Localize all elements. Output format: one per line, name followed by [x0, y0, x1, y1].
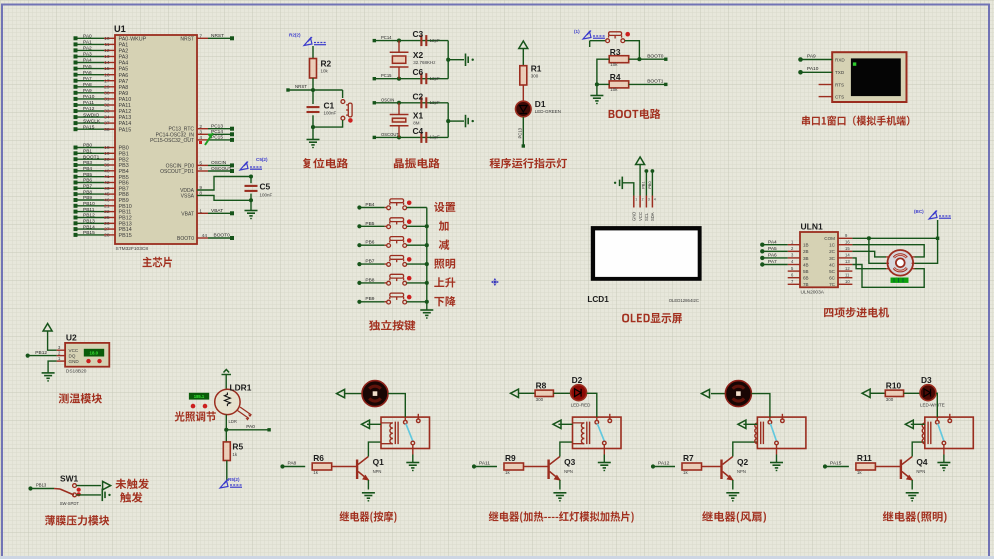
svg-text:LDR1: LDR1 [230, 383, 252, 393]
svg-text:300: 300 [886, 397, 894, 402]
relay NO contact [603, 441, 607, 454]
svg-text:COM: COM [824, 236, 835, 241]
svg-text:OSCOUT_PD1: OSCOUT_PD1 [160, 169, 194, 175]
wire 1C to motor right-top [852, 245, 924, 257]
LED D2 [571, 385, 587, 401]
U1 pin 12 PA2 wire [77, 49, 105, 51]
svg-text:PA9: PA9 [807, 53, 816, 59]
svg-text:PA7: PA7 [119, 79, 129, 85]
fan motor body [725, 381, 751, 407]
svg-text:VBAT: VBAT [211, 208, 223, 214]
U2 red dots [86, 359, 90, 363]
svg-text:19: 19 [104, 151, 110, 157]
relay coil [755, 422, 764, 445]
svg-text:10: 10 [845, 279, 850, 284]
svg-text:BOOT0: BOOT0 [214, 233, 231, 239]
svg-text:PB10: PB10 [83, 201, 95, 207]
svg-text:NPN: NPN [737, 469, 746, 474]
svg-text:7: 7 [199, 34, 202, 40]
svg-text:13: 13 [845, 259, 850, 264]
OLED display body LCD1 [591, 226, 702, 281]
wire C1 bottom [312, 115, 314, 127]
node rail junction [446, 58, 450, 62]
svg-text:R7: R7 [683, 453, 694, 463]
wire rail to ground [448, 120, 464, 122]
stepper motor M1 body [888, 250, 914, 276]
wire motor to relay common [388, 394, 405, 418]
LDR green display [189, 393, 209, 400]
svg-text:(BC): (BC) [914, 209, 924, 214]
node LDR/R5/PA0 [224, 428, 228, 432]
relay box [925, 417, 974, 448]
svg-text:27: 27 [104, 227, 110, 233]
ground relay contact [598, 455, 611, 471]
svg-text:100nF: 100nF [324, 111, 337, 116]
svg-text:ULN1: ULN1 [801, 222, 823, 232]
wire 4C to motor right-bottom [852, 265, 924, 288]
wire OLED GND pin [623, 183, 634, 196]
ground sideways crystal [466, 115, 474, 128]
wire Q4 emitter to ground [911, 480, 913, 490]
svg-text:33: 33 [104, 109, 110, 115]
wire R5 to probe [226, 461, 228, 482]
ULN1 pin 1 1B [788, 244, 800, 246]
U1 pin 34 PA13 wire [77, 116, 105, 118]
relay blade [770, 424, 776, 442]
wire R4 left [597, 83, 609, 85]
resistor R6 [312, 463, 332, 470]
svg-text:15: 15 [104, 66, 110, 72]
svg-text:R4: R4 [610, 72, 621, 82]
node BOOT0 junction [637, 57, 641, 61]
ground U2 [42, 373, 55, 381]
U2 body DS18B20 [65, 343, 109, 367]
U1 pin 17 PA7 wire [77, 80, 105, 82]
svg-text:3C: 3C [829, 256, 836, 261]
wire R1 to D1 [522, 85, 524, 101]
U1 pin 43 PB7 wire [77, 187, 105, 189]
svg-text:PB8: PB8 [83, 189, 92, 195]
resistor R4 [609, 81, 629, 88]
svg-text:OSCIN: OSCIN [211, 160, 227, 166]
svg-text:PB13: PB13 [83, 219, 95, 225]
svg-text:41: 41 [104, 174, 110, 180]
wire R4 to BOOT1 pad [629, 83, 665, 85]
svg-text:C2: C2 [413, 91, 424, 101]
svg-text:PB9: PB9 [83, 195, 92, 201]
svg-text:PA15: PA15 [119, 127, 132, 133]
svg-text:PA7: PA7 [83, 76, 92, 82]
caption 串口1窗口（模拟手机端） [802, 116, 910, 126]
U1 pin 3 PC14-OSC32_IN wire / net PC14 [197, 133, 208, 135]
wire Q1 emitter to ground [367, 480, 369, 490]
svg-text:14: 14 [104, 60, 110, 66]
svg-text:PA14: PA14 [119, 121, 132, 127]
relay common contact [768, 417, 772, 424]
U1 pin 26 PB13 wire [77, 222, 105, 224]
svg-text:185.1: 185.1 [194, 394, 205, 399]
wire net PA7 to ULN input [763, 264, 788, 266]
wire R3 left to R4 left rail [597, 59, 609, 95]
stepper motor green meter [891, 278, 909, 283]
svg-text:LCD1: LCD1 [587, 295, 609, 304]
svg-text:PB15: PB15 [83, 230, 95, 236]
svg-text:C5: C5 [260, 182, 271, 192]
U1 pin 18 PB0 wire [77, 147, 105, 149]
pushbutton PB5 pin [385, 225, 387, 227]
BOOT pushbutton [606, 32, 625, 43]
wire 2C to motor left-top [852, 251, 886, 257]
wire button to BOOT0 node [625, 41, 640, 60]
svg-text:PA1: PA1 [83, 40, 92, 46]
caption 测温模块 [59, 393, 102, 403]
svg-text:C6: C6 [413, 67, 424, 77]
wire R8 to D2 [553, 392, 570, 394]
svg-text:46: 46 [104, 198, 110, 204]
svg-text:PB12: PB12 [35, 350, 47, 356]
pushbutton reset state dot [348, 118, 353, 123]
relay NC contact stub [608, 414, 612, 423]
power bar LDR top [222, 370, 232, 375]
run arrow on PC14 wire [205, 133, 213, 145]
svg-text:28: 28 [104, 233, 110, 239]
svg-text:ULN2003A: ULN2003A [801, 290, 825, 296]
ground below C5 [245, 200, 258, 218]
svg-text:18: 18 [104, 145, 110, 151]
U2 pin stubs [57, 349, 66, 351]
U1 pin 29 PA8 wire [77, 86, 105, 88]
ground relay contact [406, 455, 419, 471]
svg-text:PB13: PB13 [36, 482, 47, 487]
svg-text:100nF: 100nF [260, 193, 273, 198]
crystal X1 pins [398, 103, 400, 138]
svg-text:VCC: VCC [638, 212, 643, 221]
power arrow relay coil [743, 423, 757, 425]
caption 上升 [434, 277, 455, 287]
svg-text:13: 13 [104, 54, 110, 60]
serial window cursor [853, 62, 856, 65]
ground emitter Q1 [362, 493, 375, 501]
node NRST junction [311, 88, 315, 92]
svg-text:BOOT1: BOOT1 [647, 79, 664, 85]
wire D3 to relay common [936, 393, 937, 417]
svg-text:OSCOUT: OSCOUT [211, 166, 232, 172]
node bus junction [425, 281, 429, 285]
svg-text:3: 3 [199, 130, 202, 136]
capacitor C5 [245, 186, 258, 191]
ground sideways crystal [466, 54, 474, 67]
svg-text:R6: R6 [313, 453, 324, 463]
svg-text:PB0: PB0 [83, 143, 92, 149]
wire OLED VCC pin [639, 165, 641, 196]
node VSSA/C5 junction [249, 198, 253, 202]
U1 pin 2 PC13_RTC wire / net PC13 [197, 128, 208, 130]
svg-text:10: 10 [104, 36, 110, 42]
serial pin CTS stub [819, 96, 833, 98]
U1 pin 19 PB1 wire [77, 152, 105, 154]
wire PB4 to bus [407, 207, 427, 209]
serial window screen [851, 58, 901, 96]
wire throw1 to arrow [76, 485, 101, 487]
svg-text:1B: 1B [803, 243, 809, 248]
svg-text:PA8: PA8 [83, 82, 92, 88]
motor massage inner [369, 386, 380, 401]
svg-text:PB9: PB9 [365, 296, 374, 302]
svg-text:PA10: PA10 [807, 66, 819, 72]
mcu U1 body STM32F103C8 [115, 35, 197, 244]
caption 光照调节 [175, 411, 216, 421]
svg-text:29: 29 [104, 84, 110, 90]
svg-text:X1: X1 [413, 111, 424, 121]
svg-text:PA2: PA2 [83, 46, 92, 52]
svg-text:VBAT: VBAT [181, 211, 194, 217]
svg-text:PB0: PB0 [648, 181, 652, 188]
svg-text:Q2: Q2 [737, 457, 749, 467]
power arrow indicator [519, 41, 528, 49]
svg-text:PA2: PA2 [119, 49, 129, 55]
svg-text:1k: 1k [313, 470, 319, 475]
svg-text:3B: 3B [803, 256, 809, 261]
svg-text:SDA: SDA [650, 212, 655, 221]
wire load arrow [711, 393, 725, 395]
svg-text:PA12: PA12 [83, 106, 95, 112]
caption 独立按键 [369, 320, 415, 330]
svg-text:2B: 2B [803, 249, 809, 254]
transistor Q3 NPN [549, 457, 560, 481]
voltage probe R2(2) [304, 37, 326, 46]
svg-text:D1: D1 [535, 99, 546, 109]
svg-text:2: 2 [199, 124, 202, 130]
relay box [573, 417, 622, 448]
wire R3 to BOOT0 pad [629, 58, 665, 60]
wire node to R5 [225, 430, 227, 442]
svg-text:2: 2 [642, 198, 644, 202]
svg-text:D3: D3 [921, 375, 932, 385]
wire R7 to base [702, 466, 722, 468]
wire COM right to motor right [915, 238, 938, 263]
svg-text:X2: X2 [413, 50, 424, 60]
U1 pin 40 PB4 wire [77, 170, 105, 172]
U1 pin 42 PB6 wire [77, 182, 105, 184]
svg-text:26: 26 [104, 221, 110, 227]
svg-text:1k: 1k [683, 470, 689, 475]
U1 pin 11 PA1 wire [77, 43, 105, 45]
svg-text:16: 16 [845, 239, 850, 244]
svg-text:12pF: 12pF [430, 76, 441, 81]
svg-text:BOOT0: BOOT0 [647, 53, 664, 59]
pushbutton PB9 pin [385, 301, 387, 303]
svg-text:PB3: PB3 [83, 160, 92, 166]
svg-text:PA12: PA12 [658, 461, 670, 467]
wire Q2 emitter to ground [732, 480, 734, 490]
ULN1 pin 14 3C [838, 257, 852, 259]
svg-text:TXD: TXD [835, 70, 845, 75]
origin marker cross [491, 278, 499, 286]
caption 晶振电路 [394, 158, 440, 168]
pushbutton PB9 [387, 293, 407, 304]
svg-text:PB1: PB1 [83, 149, 92, 155]
wire R2 bottom to NRST node [312, 78, 314, 90]
caption 设置 [434, 202, 455, 212]
red state dot near U1 pin 4 [199, 141, 202, 144]
svg-text:PC15-OSC32_OUT: PC15-OSC32_OUT [150, 138, 194, 144]
resistor R2 [310, 59, 317, 79]
wire R10 to D3 [904, 392, 920, 394]
wire PB7 to bus [407, 263, 427, 265]
resistor R9 [504, 463, 524, 470]
svg-text:PB6: PB6 [365, 240, 374, 246]
relay blade [938, 424, 944, 442]
svg-text:NRST: NRST [180, 36, 194, 42]
wire Q4 collector to relay coil [912, 442, 925, 456]
U1 pin 37 PA14 wire [77, 122, 105, 124]
svg-text:SW-SPDT: SW-SPDT [60, 501, 80, 506]
svg-text:C5(2): C5(2) [256, 157, 268, 162]
voltage probe R5(2) [220, 480, 242, 489]
arrow output 未触发 [103, 481, 111, 489]
caption 照明 [434, 259, 455, 269]
svg-text:5: 5 [199, 161, 202, 167]
node OSCOUT junction [397, 135, 401, 139]
wire caps to common rail [447, 41, 449, 79]
wire PB13 to SW1 [31, 488, 54, 490]
svg-text:R10: R10 [886, 381, 902, 391]
caption 减 [439, 239, 450, 249]
ULN1 pin 6 6B [788, 277, 800, 279]
U1 pin 32 PA11 wire [77, 104, 105, 106]
pushbutton reset contacts [341, 100, 352, 120]
svg-text:C1: C1 [324, 101, 335, 111]
net OSCOUT wire [375, 136, 448, 138]
svg-text:18.0: 18.0 [90, 351, 99, 356]
wire net PA6 to ULN input [763, 257, 788, 259]
ground OLED left [614, 177, 622, 190]
pushbutton PB8 state dot [407, 276, 412, 281]
svg-text:PA9: PA9 [119, 91, 129, 97]
pushbutton PB6 [387, 237, 407, 248]
relay coil [381, 422, 398, 445]
svg-text:BOOT1: BOOT1 [83, 154, 100, 160]
resistor R3 [609, 56, 629, 63]
svg-text:RTS: RTS [835, 82, 844, 87]
svg-text:PA6: PA6 [768, 253, 777, 259]
svg-text:45: 45 [104, 192, 110, 198]
svg-text:GND: GND [632, 212, 637, 221]
serial pin TXD [801, 71, 832, 73]
LED D3 [920, 385, 936, 401]
relay NC contact stub [948, 414, 952, 423]
capacitor C6 [421, 73, 426, 84]
svg-text:NRST: NRST [295, 84, 307, 89]
svg-text:20: 20 [104, 157, 110, 163]
svg-text:GND: GND [69, 359, 80, 364]
SW1 pole pin [54, 488, 60, 491]
svg-text:PB4: PB4 [83, 166, 92, 172]
transistor Q2 NPN [722, 457, 733, 481]
svg-text:PC15: PC15 [381, 73, 392, 78]
button row net PB4 wire [360, 207, 385, 209]
U1 pin 7 NRST wire / net NRST [197, 37, 208, 39]
wire PB9 to bus [407, 301, 427, 303]
svg-text:PC13: PC13 [518, 127, 523, 138]
pushbutton PB6 state dot [407, 238, 412, 243]
svg-text:D2: D2 [572, 375, 583, 385]
net pad input R9 [476, 466, 498, 468]
resistor R7 [682, 463, 702, 470]
wire OLED SCL pin [645, 171, 647, 196]
svg-text:PA10: PA10 [119, 97, 132, 103]
svg-text:PB5: PB5 [83, 172, 92, 178]
button row net PB7 wire [360, 263, 385, 265]
serial pin RXD [801, 59, 832, 61]
svg-text:PB14: PB14 [83, 224, 95, 230]
BOOT pushbutton state dot [625, 32, 630, 37]
stepper motor stubs [886, 257, 915, 269]
motor massage body [362, 381, 388, 407]
svg-text:1: 1 [199, 209, 202, 215]
power arrow OLED VCC [636, 157, 645, 165]
caption 四项步进电机 [824, 307, 889, 317]
ground emitter Q3 [553, 493, 566, 501]
buttons common bus wire [426, 208, 428, 311]
net pad input R7 [655, 466, 676, 468]
svg-text:LED-RED: LED-RED [571, 402, 592, 407]
svg-text:NPN: NPN [373, 469, 382, 474]
button row net PB5 wire [360, 225, 385, 227]
svg-text:11: 11 [105, 42, 110, 48]
svg-text:PA0: PA0 [246, 424, 255, 430]
svg-text:PB15: PB15 [119, 233, 132, 239]
wire PB12 to DQ [28, 355, 56, 357]
power arrow relay coil [911, 423, 925, 425]
caption 薄膜压力模块 [45, 515, 109, 525]
wire power to VCC [48, 331, 57, 350]
wire button bottom to C1 node [313, 120, 343, 127]
svg-text:5B: 5B [803, 269, 809, 274]
wire net PA5 to ULN input [763, 250, 788, 252]
pushbutton PB9 state dot [407, 295, 412, 300]
net OSCIN wire [375, 102, 448, 104]
wire net PA4 to ULN input [763, 244, 788, 246]
svg-text:7B: 7B [803, 282, 809, 287]
node R4 rail junction [595, 82, 599, 86]
svg-text:PA9: PA9 [83, 88, 92, 94]
wire D2 to relay common [587, 393, 597, 417]
pushbutton PB7 state dot [407, 257, 412, 262]
wire OLED SDA pin [651, 171, 653, 196]
relay coil [922, 422, 931, 445]
svg-text:U2: U2 [66, 333, 77, 343]
wire COM rail [852, 237, 937, 239]
svg-text:LED-WHITE: LED-WHITE [920, 402, 945, 407]
capacitor C2 [421, 97, 426, 108]
relay NC contact stub [417, 414, 421, 423]
svg-text:PB12: PB12 [83, 213, 95, 219]
caption 下降 [434, 296, 455, 306]
U2 temperature display [84, 349, 104, 357]
U1 pin 1 VBAT wire / net VBAT [197, 212, 208, 214]
svg-text:NPN: NPN [564, 469, 573, 474]
wire NRST to button [342, 90, 344, 98]
wire power to LDR [225, 375, 227, 390]
svg-text:PA6: PA6 [83, 70, 92, 76]
svg-text:PA4: PA4 [83, 58, 92, 64]
resistor R1 [520, 66, 527, 85]
wire probe down [589, 41, 591, 47]
U1 pin 27 PB14 wire [77, 228, 105, 230]
svg-text:PA11: PA11 [479, 461, 490, 467]
U1 pin 20 PB2 wire [77, 158, 105, 160]
